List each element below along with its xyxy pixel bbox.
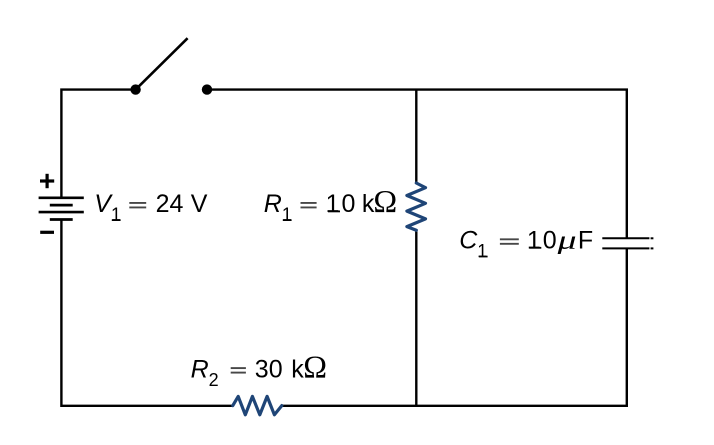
battery minus sign [40,231,54,234]
resistor R1 (vertical zigzag) [407,183,426,230]
capacitor top plate tick [651,237,654,239]
svg-text:24: 24 [156,190,184,218]
svg-text:Ω: Ω [303,348,327,384]
svg-text:μ: μ [556,226,576,255]
battery long plate 2 [39,211,84,214]
svg-text:F: F [578,227,593,255]
svg-text:10: 10 [326,190,358,218]
wire: middle branch bottom (R1 to bottom node) [415,230,417,406]
svg-text:V: V [191,190,208,218]
svg-text:k: k [291,355,304,383]
switch contact dot right [202,84,212,94]
svg-text:Ω: Ω [373,183,397,219]
label V1 = 24 V [94,190,208,225]
battery V1 [39,174,84,233]
battery short plate 1 [50,204,73,207]
battery plus sign [40,174,54,188]
capacitor bottom plate [602,247,649,249]
resistor R2 (horizontal zigzag) [233,396,282,414]
svg-text:30: 30 [255,355,283,383]
switch contact dot left [130,84,140,94]
wire: top-left segment to switch [61,90,135,198]
capacitor top plate [602,237,649,239]
battery long plate 1 [39,197,84,200]
wire: right segment below capacitor to bottom-right corner [282,248,627,405]
label C1 = 10 uF [459,226,593,261]
label R1 = 10 kOhm [264,183,397,225]
wire: top segment from switch to top-right corner and down to capacitor [207,90,627,239]
switch arm [136,38,188,89]
battery short plate 2 [50,218,73,221]
switch S1 (open) [130,38,212,95]
wire: bottom-left segment from R2 to battery minus [61,220,232,406]
wire: middle branch top (node to R1) [415,90,417,184]
svg-text:R2: R2 [191,355,219,390]
label R2 = 30 kOhm [191,348,327,390]
svg-text:10: 10 [527,227,559,255]
capacitor C1 [602,238,653,248]
capacitor bottom plate tick [651,247,654,249]
